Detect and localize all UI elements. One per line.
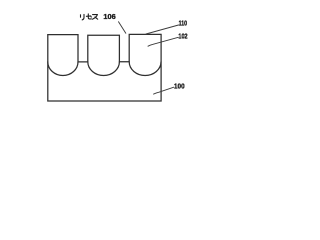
leader line for リセス106	[119, 22, 126, 33]
recess bowl 1	[48, 62, 78, 76]
leader line for 110	[146, 25, 179, 34]
katakana ス of リセス	[92, 15, 97, 20]
recess bowl 2	[88, 62, 120, 76]
svg-text:100: 100	[174, 81, 185, 90]
top profile: pillar tops 110/102 with recess gaps	[48, 34, 161, 62]
substrate 100 outline (left side, bottom, right side)	[48, 34, 161, 101]
svg-text:106: 106	[103, 12, 115, 21]
katakana セ of リセス	[88, 14, 91, 19]
svg-text:102: 102	[178, 31, 187, 40]
leader line for 102	[148, 37, 178, 46]
recess bowl 3	[129, 62, 161, 76]
katakana リ of リセス	[80, 15, 82, 17]
leader line for 100	[154, 87, 174, 94]
svg-text:110: 110	[179, 19, 187, 28]
